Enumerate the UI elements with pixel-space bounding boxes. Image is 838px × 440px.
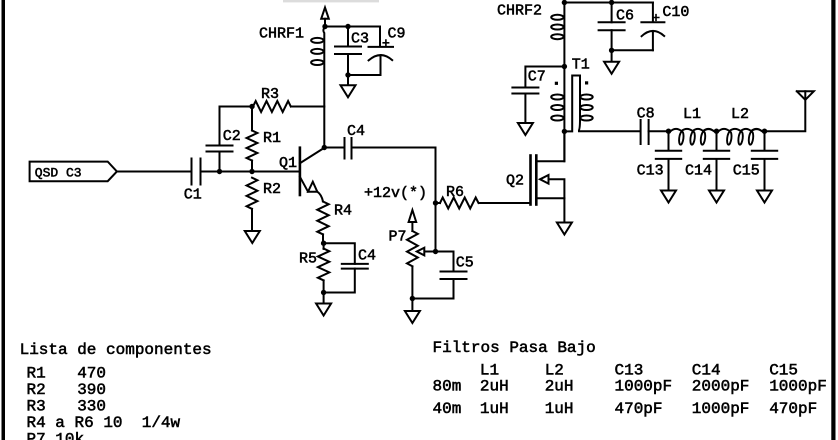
node R5 bottom [321, 290, 326, 295]
svg-text:P7: P7 [389, 229, 407, 246]
wire to ground under C6 [611, 50, 613, 62]
wire collector to C4 [324, 147, 344, 149]
svg-text:C8: C8 [637, 106, 655, 123]
T1 phase dot right [585, 81, 588, 84]
node rail C6 [609, 0, 614, 5]
wire R6 left [436, 202, 441, 204]
svg-text:330: 330 [77, 398, 106, 416]
resistor R2 [247, 178, 258, 209]
CHRF2 loop 3 [551, 34, 563, 39]
border frame right [831, 0, 835, 440]
wire C6 C10 bottom row [612, 49, 653, 51]
wire R2 to ground [251, 209, 253, 231]
L2 teardrop 1 [726, 131, 732, 144]
svg-text:C4: C4 [358, 248, 376, 265]
svg-text:40m: 40m [433, 400, 462, 418]
ground under Q2 [557, 223, 572, 235]
node L2 right [762, 129, 767, 134]
svg-text:R1: R1 [27, 365, 46, 383]
svg-text:QSD C3: QSD C3 [35, 166, 82, 181]
resistor R4 [317, 202, 328, 235]
L1 teardrop 1 [678, 131, 684, 144]
C9 plus sign [383, 40, 388, 45]
node L1 right [714, 129, 719, 134]
T1 secondary loop 2 [580, 105, 592, 110]
wire R5 top [323, 243, 325, 249]
svg-text:C1: C1 [184, 187, 202, 204]
svg-text:+12v(*): +12v(*) [364, 185, 427, 202]
Q2 drain wire [536, 131, 564, 161]
capacitor C10 electrolytic [641, 3, 664, 51]
svg-text:Filtros Pasa Bajo: Filtros Pasa Bajo [433, 339, 596, 357]
wire R4 to node [322, 234, 324, 243]
svg-text:C10: C10 [662, 4, 689, 21]
svg-text:C9: C9 [388, 26, 406, 43]
node Q1 collector [322, 145, 327, 150]
capacitor C4 (emitter) [342, 264, 368, 269]
inductor L2 [717, 129, 765, 131]
wire arrow to node [324, 19, 326, 27]
Q2 channel bar [535, 156, 538, 205]
capacitor C7 [512, 88, 538, 94]
node L1 left [666, 129, 671, 134]
wire C1 to Q1 base [201, 171, 300, 173]
Q2 source wire [536, 198, 564, 222]
svg-text:CHRF2: CHRF2 [497, 3, 542, 20]
resistor R1 [247, 131, 258, 161]
wire R1 top [251, 107, 253, 131]
svg-text:C13: C13 [637, 163, 664, 180]
CHRF1 loop 1 [311, 38, 323, 43]
svg-text:2uH: 2uH [545, 378, 574, 396]
T1 phase dot left [555, 82, 558, 85]
wire top R3 row [220, 106, 325, 108]
svg-text:R3: R3 [27, 398, 46, 416]
ground under C7 [518, 123, 533, 135]
L1 teardrop 2 [690, 131, 696, 144]
node wiper [433, 249, 438, 254]
wire R1 bottom [251, 161, 253, 172]
supply arrow above CHRF1 [321, 8, 329, 19]
svg-text:L1: L1 [683, 106, 701, 123]
ground under C13 [661, 191, 676, 203]
node C3 top [345, 24, 350, 29]
T1 primary loop 3 [551, 116, 563, 121]
L2 teardrop 2 [738, 131, 744, 144]
wire emitter to R4 [317, 192, 323, 202]
node C6 bottom [609, 48, 614, 53]
wire L2 node to antenna [765, 91, 806, 131]
svg-text:470pF: 470pF [769, 400, 817, 418]
wire to ground under P7 [411, 299, 413, 312]
svg-text:C4: C4 [347, 123, 365, 140]
svg-text:Lista de componentes: Lista de componentes [20, 341, 212, 359]
resistor R3 [253, 101, 291, 112]
node R1 bottom [249, 169, 254, 174]
inductor L1 [669, 129, 717, 131]
capacitor C8 [641, 120, 649, 144]
wire C8 to L1 node [649, 130, 669, 132]
capacitor C15 [752, 131, 777, 190]
wire P7 bottom [411, 267, 413, 299]
wire to ground under R5 [323, 293, 325, 304]
P7 wiper wire [424, 251, 435, 253]
ground under C15 [757, 191, 772, 203]
svg-text:80m: 80m [433, 378, 462, 396]
C10 plus sign [653, 15, 659, 21]
svg-text:1000pF: 1000pF [769, 378, 827, 396]
T1 secondary loop 3 [580, 116, 592, 121]
ground under R2 [245, 231, 260, 243]
svg-text:1uH: 1uH [480, 400, 509, 418]
T1 primary loop 2 [551, 105, 563, 110]
wire C6 top [611, 3, 613, 23]
Q2 substrate arrow wire [549, 179, 565, 198]
capacitor C3 [335, 47, 361, 55]
svg-text:2000pF: 2000pF [692, 378, 750, 396]
svg-text:1uH: 1uH [545, 400, 574, 418]
ground under C3 [341, 85, 356, 97]
svg-text:R6: R6 [446, 184, 464, 201]
capacitor C6 [599, 22, 625, 30]
svg-text:Q1: Q1 [279, 155, 297, 172]
svg-text:R5: R5 [299, 251, 317, 268]
node C2 bottom [217, 169, 222, 174]
P7 wiper arrow [417, 248, 425, 256]
svg-text:C5: C5 [456, 255, 474, 272]
svg-text:C15: C15 [733, 163, 760, 180]
node CHRF1 top [322, 24, 327, 29]
resistor R5 [318, 249, 329, 281]
ground under P7 [405, 311, 420, 323]
wire C6 bottom [611, 30, 613, 50]
capacitor C14 [704, 131, 729, 190]
Q2 arrow head [540, 175, 549, 184]
svg-text:R3: R3 [261, 86, 279, 103]
svg-text:390: 390 [77, 381, 106, 399]
svg-text:1000pF: 1000pF [615, 378, 673, 396]
svg-text:C6: C6 [616, 8, 634, 25]
svg-text:1000pF: 1000pF [692, 400, 750, 418]
svg-text:C7: C7 [528, 69, 546, 86]
node P7 bottom [410, 296, 415, 301]
wire C4 to R6 node [352, 148, 436, 204]
svg-text:P7 10k: P7 10k [27, 431, 85, 440]
node C7 T1 [562, 64, 567, 69]
inductor CHRF1 core [323, 27, 325, 148]
T1 secondary loop 1 [580, 95, 592, 100]
antenna [797, 91, 814, 100]
T1 primary loop 1 [551, 95, 563, 100]
svg-text:470pF: 470pF [615, 400, 663, 418]
capacitor C9 electrolytic [348, 27, 393, 76]
capacitor C2 [207, 146, 233, 152]
wire arrow to P7 [411, 222, 413, 231]
ground under R5 [316, 304, 331, 316]
node R4 R5 [321, 241, 326, 246]
L1 teardrop 3 [700, 131, 706, 144]
wire C3 top [347, 27, 349, 47]
wire R6 node to wiper node [435, 203, 437, 252]
svg-text:2uH: 2uH [480, 378, 509, 396]
wire C5 branch [412, 252, 453, 299]
L2 teardrop 3 [748, 131, 754, 144]
svg-text:R4: R4 [334, 203, 352, 220]
capacitor C13 [656, 131, 681, 190]
transistor Q2 gate bar [529, 156, 532, 205]
Q1 emitter arrow [308, 182, 317, 192]
wire C2 branch vertical [219, 107, 221, 172]
wire top C3 C9 row [325, 26, 380, 28]
CHRF1 loop 3 [311, 60, 323, 65]
capacitor C4 (coupling) [345, 138, 352, 159]
capacitor C5 [441, 272, 467, 280]
CHRF1 loop 2 [311, 49, 323, 54]
Q1 collector [300, 148, 324, 163]
wire C3 node to ground [347, 75, 349, 85]
top rail [564, 2, 653, 4]
main vertical CHRF2/T1 core [563, 3, 565, 162]
node T1 bottom [562, 129, 567, 134]
svg-text:C2: C2 [223, 128, 241, 145]
svg-text:CHRF1: CHRF1 [259, 26, 304, 43]
node rail CHRF2 [562, 0, 567, 5]
border frame left [2, 0, 6, 440]
T1 secondary core [579, 76, 581, 121]
svg-text:R2: R2 [263, 181, 281, 198]
wire R6 to Q2 gate [479, 202, 531, 204]
CHRF2 loop 1 [551, 15, 563, 20]
svg-text:L2: L2 [731, 106, 749, 123]
potentiometer P7 [407, 231, 418, 266]
svg-text:C14: C14 [685, 163, 712, 180]
wire C4b branch [324, 243, 355, 292]
CHRF2 loop 2 [551, 25, 563, 30]
node R6 left [433, 200, 438, 205]
svg-text:R1: R1 [263, 130, 281, 147]
svg-text:R4 a R6 10 1/4w: R4 a R6 10 1/4w [27, 414, 181, 432]
T1 secondary bottom to output [578, 121, 641, 132]
supply arrow above P7 [409, 210, 417, 222]
node C3 bottom [345, 72, 350, 77]
wire C3 bottom [347, 54, 349, 75]
svg-text:T1: T1 [572, 57, 590, 74]
wire C7 bottom [524, 94, 526, 124]
wire R5 bottom [323, 281, 325, 293]
svg-text:C3: C3 [351, 31, 369, 48]
input tag QSD C3 [30, 162, 117, 182]
svg-text:R2: R2 [27, 381, 46, 399]
svg-text:470: 470 [77, 365, 106, 383]
node R3 left [249, 104, 254, 109]
wire tag to C1 [117, 171, 192, 173]
transistor Q1 base bar [299, 148, 302, 195]
T1 secondary top hook [566, 76, 581, 132]
capacitor C1 [192, 159, 201, 185]
ground under C14 [709, 191, 724, 203]
Q1 emitter [300, 177, 308, 192]
wire C7 branch [525, 67, 564, 88]
resistor R6 [440, 198, 479, 209]
ground under C6 [604, 62, 619, 74]
svg-text:Q2: Q2 [506, 173, 524, 190]
